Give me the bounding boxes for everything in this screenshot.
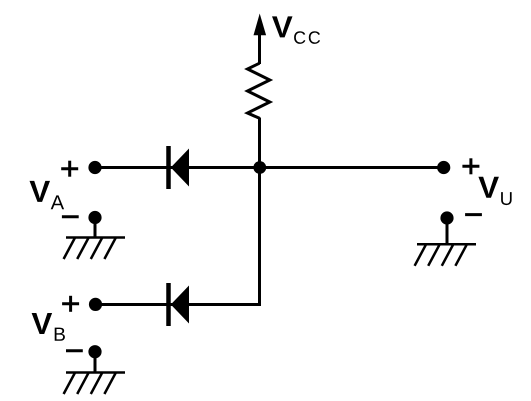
node junction (common anode node) <box>253 161 266 174</box>
minus sign VB <box>66 349 83 352</box>
resistor R (pull-up) <box>248 63 270 118</box>
terminal VU + <box>437 161 450 174</box>
label VA <box>30 181 65 209</box>
wire trunk (resistor bottom to lower branch corner) <box>258 118 261 305</box>
plus sign VB <box>62 296 79 312</box>
ground VB <box>64 373 125 395</box>
wire stub VU ground <box>446 218 449 244</box>
label Vcc <box>272 16 320 43</box>
terminal VA - <box>88 211 101 224</box>
terminal VU - <box>440 211 453 224</box>
ground VA <box>64 238 125 260</box>
diode D1 (top) <box>169 146 190 189</box>
terminal VB - <box>88 345 101 358</box>
plus sign VA <box>61 161 78 177</box>
terminal VA + <box>88 161 101 174</box>
minus sign VA <box>62 215 79 218</box>
minus sign VU <box>465 213 482 216</box>
ground VU <box>415 244 476 265</box>
wire stub VA ground <box>94 218 97 238</box>
label VB <box>32 313 65 341</box>
Vcc supply arrow <box>254 14 267 65</box>
label VU <box>478 177 511 205</box>
plus sign VU <box>462 158 479 174</box>
wire bottom branch (VB input to corner) <box>96 303 262 306</box>
terminal VB + <box>89 298 102 311</box>
wire top branch (VA input to VU output) <box>95 166 444 169</box>
diode D2 (bottom) <box>169 283 190 326</box>
wire stub VB ground <box>94 352 97 373</box>
